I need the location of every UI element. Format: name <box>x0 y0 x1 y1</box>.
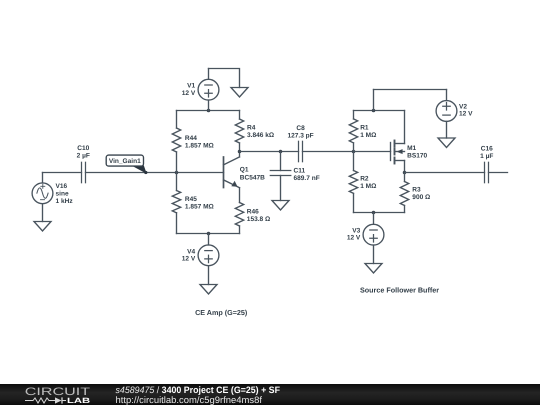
voltage source V4 12V <box>198 245 219 266</box>
wire SF bottom rail <box>354 212 405 214</box>
ground at C11 <box>272 201 289 211</box>
svg-text:Source Follower Buffer: Source Follower Buffer <box>360 285 439 294</box>
svg-text:C10: C10 <box>77 145 89 152</box>
resistor R1 1 MOhm <box>349 119 357 143</box>
resistor R44 1.857 MOhm <box>172 128 180 152</box>
svg-text:12 V: 12 V <box>182 256 196 263</box>
svg-text:C8: C8 <box>296 125 305 132</box>
svg-text:R44: R44 <box>185 135 197 142</box>
wire V3 bottom stub <box>373 245 375 263</box>
svg-text:Vin_Gain1: Vin_Gain1 <box>109 158 141 165</box>
node V2 drop junction <box>372 109 376 113</box>
ground at V4 <box>200 285 217 295</box>
wire V2 top horizontal <box>374 89 447 91</box>
wire R4 bottom to collector node <box>239 143 241 152</box>
svg-text:12 V: 12 V <box>182 90 196 97</box>
node C11 junction <box>279 150 283 154</box>
resistor R2 top stub wire <box>353 152 355 171</box>
svg-text:M1: M1 <box>407 145 416 152</box>
wire V1 bottom stub to rail <box>208 100 210 110</box>
svg-text:1.857 MΩ: 1.857 MΩ <box>185 203 214 210</box>
wire V16 top stub <box>42 173 44 183</box>
capacitor C8 127.3 pF <box>299 141 303 161</box>
resistor R45 top stub wire <box>176 173 178 191</box>
svg-text:C16: C16 <box>481 146 493 153</box>
svg-text:V16: V16 <box>56 183 68 190</box>
capacitor C11 689.7 nF <box>270 171 291 176</box>
wire CE top rail <box>177 110 240 112</box>
wire C16 output stub <box>489 172 508 174</box>
wire R1 top stub <box>353 111 355 119</box>
resistor R4 3.846 kOhm <box>235 119 243 143</box>
wire R46 bottom to CE bottom rail <box>239 226 241 234</box>
wire source node to C16 <box>405 172 485 174</box>
wire V4 top stub <box>208 234 210 245</box>
voltage source V16 (sine 1 kHz) <box>32 183 53 204</box>
wire R1 bottom to gate node <box>353 143 355 152</box>
svg-text:1 MΩ: 1 MΩ <box>360 132 376 139</box>
svg-text:C11: C11 <box>294 168 306 175</box>
wire collector node to C8 <box>240 151 299 153</box>
svg-text:V2: V2 <box>459 103 467 110</box>
svg-text:1 kHz: 1 kHz <box>56 198 74 205</box>
wire R2 bottom to SF bottom rail <box>353 194 355 213</box>
svg-text:V1: V1 <box>187 83 195 90</box>
wire V4 bottom stub <box>208 266 210 285</box>
svg-text:R46: R46 <box>247 208 259 215</box>
svg-text:R2: R2 <box>360 176 369 183</box>
capacitor C10 <box>82 162 86 182</box>
ground at V3 <box>365 264 382 274</box>
svg-text:CE Amp (G=25): CE Amp (G=25) <box>195 308 248 317</box>
wire M1 drain up to rail <box>404 111 406 144</box>
voltage source V2 12V <box>436 101 457 122</box>
wire C10 to Q1 base <box>86 172 224 174</box>
wire R45 bottom to CE bottom rail <box>176 213 178 234</box>
svg-text:BC547B: BC547B <box>240 174 265 181</box>
transistor M1 BS170 <box>354 141 405 164</box>
ground under V16 <box>34 222 51 232</box>
resistor R2 1 MOhm <box>349 171 357 194</box>
svg-text:LAB: LAB <box>67 396 91 405</box>
transistor Q1 BC547B <box>224 157 240 188</box>
flag Vin_Gain1 <box>106 155 147 174</box>
voltage source V1 12V <box>198 79 219 100</box>
capacitor C16 1 uF <box>485 162 489 182</box>
svg-text:153.8 Ω: 153.8 Ω <box>247 216 270 223</box>
node V4 junction <box>207 232 211 236</box>
svg-text:12 V: 12 V <box>459 111 473 118</box>
ground at V1 <box>231 88 248 98</box>
svg-text:s4589475 / 3400 Project CE (G=: s4589475 / 3400 Project CE (G=25) + SF <box>116 385 281 395</box>
wire Q1 collector up to node <box>239 152 241 157</box>
resistor R44 top stub wire <box>176 111 178 129</box>
wire V16 bottom stub <box>42 204 44 222</box>
voltage source V3 12V <box>363 224 384 245</box>
svg-text:R4: R4 <box>247 125 256 132</box>
wire C11 top stub <box>280 152 282 171</box>
svg-text:12 V: 12 V <box>347 234 361 241</box>
svg-text:127.3 pF: 127.3 pF <box>287 132 313 139</box>
wire V1 top stub <box>208 69 210 80</box>
svg-text:689.7 nF: 689.7 nF <box>294 175 320 182</box>
svg-text:V3: V3 <box>352 227 360 234</box>
svg-text:BS170: BS170 <box>407 153 427 160</box>
wire V2 branch vertical <box>373 90 375 111</box>
node source junction <box>403 171 407 175</box>
svg-text:Q1: Q1 <box>240 167 249 174</box>
wire M1 source down to node <box>404 161 406 173</box>
svg-text:2 µF: 2 µF <box>77 152 90 159</box>
wire V2 bottom stub <box>446 121 448 138</box>
wire R44 bottom to base node <box>176 152 178 173</box>
wire C11 bottom stub <box>280 176 282 201</box>
svg-text:R45: R45 <box>185 196 197 203</box>
svg-text:R3: R3 <box>412 187 421 194</box>
resistor R4 top stub wire <box>239 111 241 120</box>
node Q1 collector junction <box>238 150 242 154</box>
svg-text:http://circuitlab.com/c5g9rfne: http://circuitlab.com/c5g9rfne4ms8f <box>116 395 263 405</box>
node V1 to rail junction <box>207 109 211 113</box>
svg-text:sine: sine <box>56 190 69 197</box>
wire V3 top stub <box>373 213 375 225</box>
resistor R3 top stub wire <box>404 173 406 182</box>
wire input V16 to C10 <box>43 172 82 174</box>
wire CE bottom rail <box>177 233 240 235</box>
ground at V2 <box>438 138 455 148</box>
wire V1 top to ground drop <box>209 69 240 88</box>
node V3 junction <box>372 211 376 215</box>
svg-text:900 Ω: 900 Ω <box>412 194 430 201</box>
svg-text:V4: V4 <box>187 249 195 256</box>
wire V2 top stub <box>446 90 448 101</box>
resistor R45 1.857 MOhm <box>172 191 180 213</box>
wire R3 bottom to SF bottom rail <box>404 206 406 213</box>
svg-text:R1: R1 <box>360 125 369 132</box>
node base divider junction <box>175 171 179 175</box>
svg-text:1 MΩ: 1 MΩ <box>360 183 376 190</box>
svg-text:1 µF: 1 µF <box>480 153 493 160</box>
resistor R3 900 Ohm <box>400 182 408 206</box>
node gate junction <box>352 150 356 154</box>
wire C8 to gate node <box>303 151 354 153</box>
svg-text:1.857 MΩ: 1.857 MΩ <box>185 142 214 149</box>
wire Q1 emitter down to R46 <box>239 188 241 203</box>
svg-text:3.846 kΩ: 3.846 kΩ <box>247 132 274 139</box>
wire SF top rail <box>354 110 405 112</box>
resistor R46 153.8 Ohm <box>235 203 243 226</box>
